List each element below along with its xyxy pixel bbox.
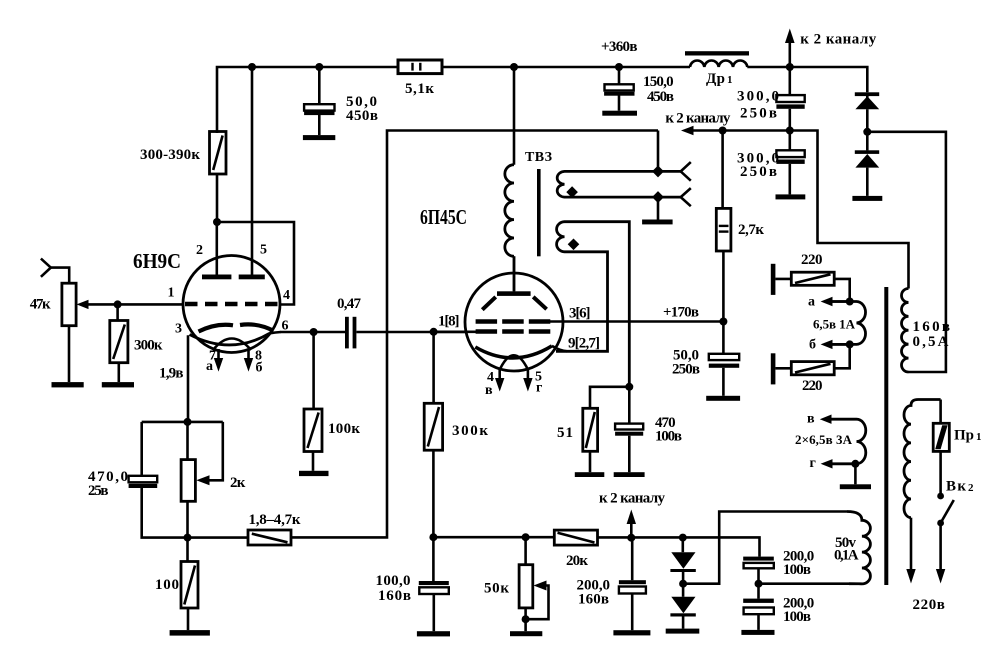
svg-text:25в: 25в bbox=[88, 483, 109, 499]
svg-text:3: 3 bbox=[175, 322, 182, 337]
svg-text:160в: 160в bbox=[578, 592, 609, 608]
svg-text:2: 2 bbox=[968, 482, 974, 494]
svg-text:2: 2 bbox=[196, 243, 203, 258]
svg-text:+170в: +170в bbox=[663, 305, 699, 321]
svg-text:к 2 каналу: к 2 каналу bbox=[599, 491, 666, 507]
svg-text:450в: 450в bbox=[346, 108, 378, 124]
svg-text:100: 100 bbox=[155, 577, 179, 593]
svg-text:к 2 каналу: к 2 каналу bbox=[800, 32, 877, 48]
svg-text:250в: 250в bbox=[740, 164, 777, 180]
svg-text:6,5в 1А: 6,5в 1А bbox=[813, 317, 856, 332]
svg-text:250в: 250в bbox=[672, 362, 700, 378]
svg-text:1: 1 bbox=[976, 431, 982, 443]
svg-text:250в: 250в bbox=[740, 106, 777, 122]
svg-text:+360в: +360в bbox=[601, 39, 638, 55]
svg-text:450в: 450в bbox=[647, 89, 674, 105]
svg-text:160в: 160в bbox=[378, 588, 411, 604]
svg-text:47к: 47к bbox=[30, 297, 51, 313]
svg-text:б: б bbox=[256, 361, 263, 376]
svg-text:к 2 каналу: к 2 каналу bbox=[665, 111, 731, 127]
svg-text:3[6]: 3[6] bbox=[569, 306, 591, 322]
svg-text:50к: 50к bbox=[484, 581, 509, 597]
svg-text:1: 1 bbox=[168, 286, 175, 301]
svg-text:6П45С: 6П45С bbox=[420, 206, 467, 230]
svg-text:г: г bbox=[536, 381, 542, 396]
svg-text:220: 220 bbox=[802, 378, 823, 394]
svg-text:0,1А: 0,1А bbox=[834, 548, 859, 564]
svg-text:300к: 300к bbox=[134, 338, 163, 354]
svg-text:1,9в: 1,9в bbox=[159, 366, 184, 382]
svg-text:100в: 100в bbox=[783, 562, 811, 578]
svg-text:300,0: 300,0 bbox=[737, 89, 779, 105]
svg-text:в: в bbox=[807, 412, 815, 427]
svg-text:220в: 220в bbox=[913, 597, 945, 613]
svg-text:Пр: Пр bbox=[954, 428, 974, 444]
svg-text:6Н9С: 6Н9С bbox=[133, 250, 181, 273]
svg-text:20к: 20к bbox=[566, 553, 588, 569]
svg-text:300к: 300к bbox=[452, 423, 488, 439]
svg-text:1[8]: 1[8] bbox=[438, 314, 460, 330]
svg-text:2×6,5в 3А: 2×6,5в 3А bbox=[795, 432, 853, 447]
svg-text:2,7к: 2,7к bbox=[738, 222, 764, 238]
svg-text:б: б bbox=[809, 338, 816, 353]
svg-text:ТВЗ: ТВЗ bbox=[525, 150, 552, 165]
svg-text:2к: 2к bbox=[230, 475, 246, 491]
svg-text:100в: 100в bbox=[783, 609, 811, 625]
svg-text:5,1к: 5,1к bbox=[405, 81, 434, 97]
svg-text:6: 6 bbox=[282, 319, 289, 334]
svg-text:а: а bbox=[206, 359, 213, 374]
svg-text:5: 5 bbox=[260, 243, 267, 258]
svg-text:в: в bbox=[485, 383, 493, 398]
svg-text:г: г bbox=[810, 456, 816, 471]
svg-text:220: 220 bbox=[801, 252, 823, 268]
svg-text:100к: 100к bbox=[328, 421, 360, 437]
svg-text:Др: Др bbox=[706, 71, 725, 87]
svg-text:а: а bbox=[808, 295, 815, 310]
svg-text:4: 4 bbox=[283, 288, 290, 303]
svg-text:160в: 160в bbox=[913, 319, 951, 335]
svg-text:51: 51 bbox=[557, 425, 573, 441]
svg-text:0,5А: 0,5А bbox=[913, 334, 949, 350]
svg-text:100,0: 100,0 bbox=[376, 573, 411, 589]
svg-text:0,47: 0,47 bbox=[337, 296, 362, 312]
svg-text:1: 1 bbox=[727, 74, 733, 86]
svg-text:9[2,7]: 9[2,7] bbox=[568, 336, 600, 352]
svg-text:300-390к: 300-390к bbox=[140, 147, 200, 163]
svg-text:150,0: 150,0 bbox=[643, 74, 674, 90]
svg-text:100в: 100в bbox=[655, 429, 682, 445]
svg-text:1,8–4,7к: 1,8–4,7к bbox=[249, 512, 301, 528]
